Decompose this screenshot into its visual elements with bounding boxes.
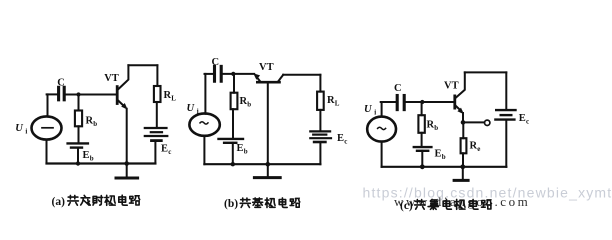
wire: emitter to output node (c) bbox=[462, 113, 464, 122]
svg-text:c: c bbox=[344, 137, 347, 145]
svg-text:b: b bbox=[247, 101, 251, 109]
wire: junction down to Rb (b) bbox=[233, 74, 235, 93]
transistor VT (a) collector bbox=[118, 65, 128, 89]
wire: Eb down to bottom rail (b) bbox=[232, 143, 234, 164]
battery Eb (a) bbox=[68, 143, 88, 147]
wire: C to base (c) bbox=[406, 101, 454, 103]
caption (c) bbox=[400, 199, 491, 212]
svg-text:i: i bbox=[197, 108, 199, 116]
svg-text:E: E bbox=[337, 133, 344, 144]
svg-text:E: E bbox=[237, 143, 244, 154]
svg-text:VT: VT bbox=[259, 62, 274, 73]
caption (a) bbox=[52, 195, 140, 208]
svg-text:c: c bbox=[526, 117, 529, 125]
source U1a sine symbol bbox=[42, 127, 53, 129]
wire: R down to bottom rail (c) bbox=[462, 153, 464, 167]
ground (b) bbox=[267, 164, 269, 176]
battery Ec (b) bbox=[310, 131, 331, 142]
svg-text:E: E bbox=[435, 149, 442, 160]
node: bottom junction under Eb (c) bbox=[420, 164, 425, 169]
battery Eb (c) bbox=[414, 147, 432, 151]
transistor VT (a) emitter with arrow bbox=[118, 100, 125, 107]
wire: Rb to battery Eb (b) bbox=[232, 109, 234, 138]
resistor Rb (a) bbox=[75, 111, 82, 127]
source U1b sine symbol bbox=[200, 122, 208, 124]
wire: junction down to Rb (a) bbox=[78, 95, 80, 111]
wire: E down to bottom rail (c) bbox=[505, 120, 507, 167]
svg-text:i: i bbox=[374, 109, 376, 117]
source U1a circle bbox=[32, 116, 62, 139]
node: bottom junction under Eb (a) bbox=[76, 161, 80, 165]
node: emitter bias junction (b) bbox=[231, 72, 235, 76]
svg-text:C: C bbox=[394, 83, 402, 94]
svg-text:b: b bbox=[93, 120, 97, 128]
wire: source bottom to bottom rail (a) bbox=[46, 140, 48, 164]
svg-text:b: b bbox=[244, 147, 248, 155]
caption (b) bbox=[224, 198, 300, 210]
svg-text:E: E bbox=[519, 113, 526, 124]
wire: junction down to Rb (c) bbox=[421, 102, 423, 115]
node: bottom junction under Eb (b) bbox=[231, 162, 235, 166]
svg-text:b: b bbox=[90, 154, 94, 162]
source U1c circle bbox=[367, 117, 396, 142]
transistor VT (c) collector bbox=[456, 72, 465, 98]
transistor VT (b) base bar bbox=[257, 81, 279, 84]
wire: Rb to battery Eb (c) bbox=[421, 133, 423, 146]
ground (c) bbox=[462, 167, 464, 179]
transistor VT (a) base bar bbox=[116, 87, 119, 104]
node: base bias junction (a) bbox=[76, 92, 80, 96]
svg-text:(a): (a) bbox=[52, 196, 66, 208]
wire: emitter junction down to R (c) bbox=[462, 122, 464, 138]
transistor VT (c) base bar bbox=[453, 96, 456, 108]
svg-text:R: R bbox=[470, 141, 478, 152]
resistor RL (a) bbox=[154, 86, 161, 102]
node: base/ground junction (b) bbox=[266, 162, 271, 167]
svg-text:VT: VT bbox=[444, 81, 459, 92]
svg-text:e: e bbox=[477, 145, 480, 153]
svg-text:R: R bbox=[240, 96, 248, 107]
svg-text:i: i bbox=[25, 128, 27, 136]
output terminal circle (c) bbox=[485, 120, 490, 125]
wire: Eb down to bottom rail (a) bbox=[77, 148, 79, 164]
wire: bottom rail (a) bbox=[47, 162, 156, 164]
wire: C to base node to transistor base bbox=[66, 94, 116, 96]
source U1c sine symbol bbox=[378, 127, 386, 129]
svg-text:E: E bbox=[83, 150, 90, 161]
svg-text:c: c bbox=[168, 148, 171, 156]
wire: collector top rail (b) bbox=[283, 74, 320, 76]
wire: output lead (c) bbox=[463, 121, 484, 123]
svg-text:C: C bbox=[57, 78, 65, 89]
node: base bias junction (c) bbox=[420, 100, 424, 104]
battery E (c) bbox=[495, 110, 515, 120]
resistor Rb (b) bbox=[231, 93, 238, 110]
wire: source bottom to bottom rail (c) bbox=[381, 142, 383, 167]
svg-text:C: C bbox=[212, 57, 220, 68]
wire: bottom rail (b) bbox=[204, 163, 320, 165]
wire: RL to battery Ec (b) bbox=[319, 110, 321, 131]
resistor R (c) bbox=[461, 138, 467, 153]
svg-text:R: R bbox=[327, 95, 335, 106]
svg-text:(b): (b) bbox=[224, 198, 238, 210]
svg-text:VT: VT bbox=[104, 73, 119, 84]
node: ground junction (c) bbox=[460, 164, 465, 169]
wire: Ec down to bottom rail (a) bbox=[154, 141, 156, 164]
resistor RL (b) bbox=[317, 92, 324, 110]
capacitor C (b) plates bbox=[215, 66, 222, 81]
wire: Rb to battery Eb (a) bbox=[78, 126, 80, 142]
wire: RL to battery Ec (a) bbox=[156, 102, 158, 127]
svg-text:b: b bbox=[442, 153, 446, 161]
svg-text:E: E bbox=[161, 144, 168, 155]
wire: C to emitter (b) bbox=[223, 73, 254, 75]
transistor VT (b) emitter with arrow bbox=[256, 76, 260, 81]
transistor VT (b) collector bbox=[278, 75, 283, 81]
svg-text:R: R bbox=[427, 120, 435, 131]
resistor Rb (c) bbox=[418, 115, 424, 133]
wire: Eb down to bottom rail (c) bbox=[421, 151, 423, 167]
wire: source bottom to bottom rail (b) bbox=[203, 136, 205, 164]
source U1b circle bbox=[189, 113, 219, 135]
battery Eb (b) bbox=[219, 139, 244, 143]
wire: left rail (b) bbox=[204, 74, 206, 114]
ground (a) bbox=[126, 164, 128, 178]
svg-text:b: b bbox=[434, 124, 438, 132]
node: emitter junction (c) bbox=[461, 120, 466, 125]
svg-text:L: L bbox=[171, 94, 176, 102]
wire: collector top rail (c) bbox=[465, 71, 507, 73]
wire: left rail from source U1a top to input node bbox=[47, 94, 49, 116]
svg-text:(c): (c) bbox=[400, 200, 413, 212]
wire: left rail (c) bbox=[381, 102, 383, 116]
node: emitter/ground junction (a) bbox=[124, 161, 129, 166]
wire: emitter down to bottom rail (a) bbox=[126, 109, 128, 164]
wire: bottom rail (c) bbox=[382, 166, 507, 168]
wire: collector top rail (a) bbox=[128, 64, 157, 66]
wire: Ec down to bottom rail (b) bbox=[319, 142, 321, 164]
capacitor C (a) plates bbox=[59, 87, 65, 100]
transistor VT (c) emitter with arrow bbox=[456, 106, 462, 112]
capacitor C (c) plates bbox=[397, 96, 404, 110]
svg-text:L: L bbox=[335, 99, 340, 107]
svg-text:R: R bbox=[164, 90, 172, 101]
svg-text:R: R bbox=[86, 116, 94, 127]
battery Ec (a) bbox=[145, 128, 168, 141]
wire: base down to bottom rail (b) bbox=[267, 84, 269, 165]
